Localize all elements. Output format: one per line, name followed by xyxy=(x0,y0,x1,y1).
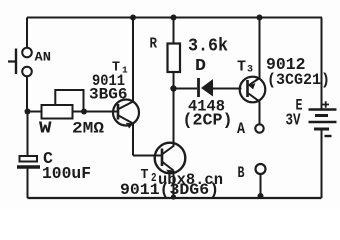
svg-text:3BG6: 3BG6 xyxy=(89,86,128,104)
svg-text:2MΩ: 2MΩ xyxy=(72,120,104,138)
wire node to diode cathode xyxy=(174,88,198,90)
wire terminal B to bottom rail xyxy=(260,174,262,198)
wire diode anode to T3 base xyxy=(213,88,242,90)
wire pot to T1 base xyxy=(73,111,119,113)
wire T2 emitter to bottom rail xyxy=(173,171,175,199)
wire bottom rail xyxy=(28,197,322,199)
wire top rail to battery xyxy=(321,18,323,109)
node junction B rail xyxy=(258,193,264,199)
resistor R 3.6k xyxy=(150,36,229,73)
pushbutton AN xyxy=(8,48,51,77)
battery E 3V xyxy=(286,97,337,137)
wire T3 collector to terminal A xyxy=(259,102,261,125)
terminal A xyxy=(237,120,264,138)
svg-text:AN: AN xyxy=(35,51,52,65)
node junction R on top rail xyxy=(171,15,177,21)
node junction pot wiper xyxy=(81,109,87,115)
transistor T1 9011 3BG6 xyxy=(89,60,139,129)
wire AN to node W xyxy=(26,77,28,112)
svg-text:3.6k: 3.6k xyxy=(188,37,228,57)
wire battery to bottom rail xyxy=(321,129,323,198)
wire T1 emitter to T2 base xyxy=(133,155,162,157)
watermark ubx8.cn xyxy=(158,171,223,189)
transistor T2 9011(3DG6) xyxy=(120,143,219,199)
node junction R-D-T2 xyxy=(170,85,176,91)
wire capacitor to bottom rail xyxy=(27,169,29,199)
wire T1 emitter down xyxy=(132,124,134,156)
capacitor C 100uF xyxy=(17,150,91,183)
wire T2 collector to node xyxy=(173,89,175,147)
wire AN to top rail xyxy=(26,18,28,48)
svg-text:3: 3 xyxy=(247,64,253,76)
wire rail to resistor R xyxy=(173,18,175,44)
svg-text:W: W xyxy=(39,119,52,138)
svg-text:T: T xyxy=(237,60,246,76)
svg-text:B: B xyxy=(238,164,245,182)
wire resistor to node D xyxy=(173,72,175,89)
potentiometer W 2M xyxy=(39,90,104,138)
svg-text:R: R xyxy=(150,36,158,53)
wire node to potentiometer xyxy=(28,111,42,113)
diode D 4148 (2CP) xyxy=(183,56,233,130)
wire T1 collector xyxy=(132,18,134,102)
node junction T2 emitter rail xyxy=(171,194,176,199)
wire top rail xyxy=(27,17,322,19)
node junction T1 collector on top rail xyxy=(130,15,136,21)
svg-text:D: D xyxy=(195,56,206,75)
svg-text:ubx8.cn: ubx8.cn xyxy=(158,171,223,189)
wire node W down to capacitor C xyxy=(27,112,29,157)
transistor T3 9012 (3CG21) xyxy=(237,56,330,102)
terminal B xyxy=(238,164,266,182)
node junction T3 emitter on top rail xyxy=(257,15,263,21)
svg-text:3V: 3V xyxy=(286,112,302,131)
node junction left xyxy=(25,109,31,115)
svg-text:100uF: 100uF xyxy=(42,164,91,183)
wire T3 emitter xyxy=(259,18,261,79)
svg-text:(2CP): (2CP) xyxy=(183,111,233,130)
svg-text:A: A xyxy=(237,120,245,138)
